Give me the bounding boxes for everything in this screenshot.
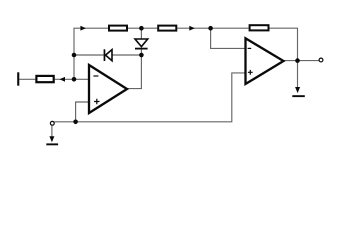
wire: node C down and right to op-amp U2 inverting input	[211, 28, 246, 48]
op-amp U1 plus label	[94, 99, 99, 104]
wire: resistor R3 to node C	[177, 27, 210, 29]
ground 2 bar	[292, 95, 305, 97]
resistor R2	[109, 26, 127, 31]
node B (junction dot)	[139, 26, 144, 31]
ground 1 bar	[46, 143, 58, 145]
op-amp U1	[89, 65, 127, 113]
wire: node B to resistor R3	[141, 27, 157, 29]
wire: ground rail from terminal circle to right, up to op-amp U2 non-inverting input	[54, 73, 245, 122]
ground 1 terminal circle	[50, 121, 54, 125]
wire: node C to resistor R4	[211, 27, 249, 29]
wire: op-amp U2 output to node F and output terminal	[284, 60, 320, 62]
wire: diode D2 cathode bar to node D	[140, 49, 142, 55]
node C (junction dot)	[208, 26, 213, 31]
node A (junction dot)	[72, 77, 77, 82]
wire: terminal circle down toward ground 1	[51, 125, 53, 136]
op-amp U1 minus label	[93, 75, 98, 77]
resistor R1	[36, 76, 53, 82]
node F (junction dot)	[295, 58, 300, 63]
op-amp U2 plus label	[248, 70, 253, 75]
current arrow on input wire (pointing left)	[60, 77, 66, 82]
current arrow on top-left wire (pointing right)	[80, 26, 86, 31]
wire: resistor R1 to op-amp U1 inverting input (through node A)	[55, 78, 89, 80]
diode D2 triangle	[135, 39, 148, 47]
wire: resistor R4 to top-right corner down to node F	[270, 28, 298, 60]
wire: node B down to diode D2	[140, 28, 142, 39]
resistor R3	[158, 26, 176, 31]
ground 1 arrow	[49, 136, 54, 142]
ground 2 arrow	[295, 87, 300, 93]
current arrow after resistor R3 (pointing right)	[189, 26, 195, 31]
wire: node D down and left to op-amp U1 output	[127, 55, 141, 89]
node D (junction dot)	[139, 53, 144, 58]
input terminal bar	[17, 72, 19, 85]
op-amp U2 minus label	[248, 47, 252, 49]
wire: node E to diode D1 cathode	[74, 54, 104, 56]
wire: left vertical bus from top corner down to node A	[73, 28, 75, 79]
diode D1 triangle	[106, 50, 113, 61]
wire: top corner to resistor R2	[73, 27, 108, 29]
wire: resistor R2 to node B	[128, 27, 141, 29]
wire: input terminal to resistor R1	[19, 78, 35, 80]
output terminal circle	[319, 58, 323, 62]
diode D2 cathode bar	[135, 48, 148, 50]
wire: node F down toward ground 2	[297, 61, 299, 88]
wire: diode D1 anode to node D	[112, 54, 141, 56]
node E (junction dot)	[72, 53, 77, 58]
resistor R4	[250, 25, 269, 30]
op-amp U2	[246, 38, 284, 84]
node G (junction dot)	[73, 120, 78, 125]
wire: op-amp U1 non-inverting input left and down to node G	[76, 102, 89, 122]
diode D1 cathode bar	[104, 49, 106, 61]
